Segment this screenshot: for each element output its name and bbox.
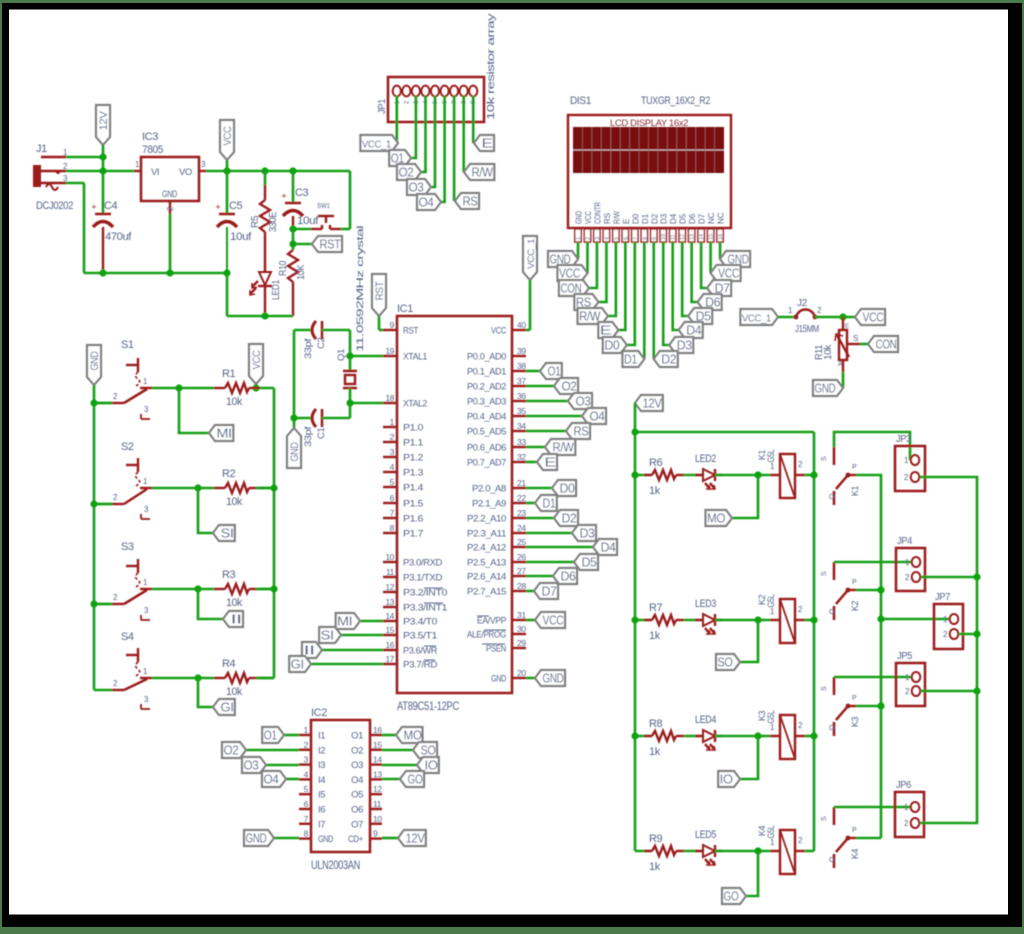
resistor R5 330E bbox=[250, 171, 279, 271]
net label GO (IC2 right) bbox=[400, 771, 424, 787]
wire JP3 pin2 to output rail bbox=[920, 477, 977, 823]
net label VCC (J2) bbox=[855, 309, 885, 325]
wire S3 pin2 bbox=[94, 603, 112, 606]
wire LCD pin 16 to GND bbox=[719, 242, 722, 259]
svg-text:I6: I6 bbox=[318, 805, 325, 816]
svg-text:D4: D4 bbox=[669, 213, 678, 224]
svg-text:D6: D6 bbox=[561, 570, 576, 584]
net label GND (R11) bbox=[813, 380, 843, 396]
svg-text:D2: D2 bbox=[650, 213, 659, 224]
wire IC1 to VCC bbox=[526, 619, 535, 622]
net label VCC (IC1 right) bbox=[535, 612, 565, 628]
net label GO (relay) bbox=[722, 888, 746, 904]
svg-text:RS: RS bbox=[463, 195, 478, 209]
driver IC2 ULN2003AN bbox=[311, 707, 370, 872]
net label O3 (JP1) bbox=[407, 179, 431, 195]
connector JP4 bbox=[896, 536, 925, 591]
svg-text:D2: D2 bbox=[661, 353, 676, 367]
wire IC1 to O3 bbox=[526, 400, 568, 403]
svg-text:O1: O1 bbox=[548, 365, 561, 379]
supply flag 12V bbox=[96, 105, 110, 157]
relay contact K1 bbox=[821, 447, 860, 505]
net label VCC (LCD right) bbox=[711, 265, 741, 281]
wire SW1 to VCC net bbox=[341, 171, 350, 229]
junction S3 tap bbox=[194, 585, 201, 592]
svg-text:O5: O5 bbox=[351, 790, 363, 801]
svg-text:5: 5 bbox=[304, 784, 309, 794]
svg-text:CONTR: CONTR bbox=[593, 202, 602, 224]
svg-text:JP6: JP6 bbox=[896, 780, 912, 791]
wire K1 P to common rail bbox=[856, 475, 881, 838]
svg-text:7: 7 bbox=[304, 814, 309, 824]
svg-text:12: 12 bbox=[385, 582, 394, 592]
wire IC1 to D0 bbox=[526, 487, 552, 490]
svg-text:26: 26 bbox=[517, 552, 526, 562]
svg-text:4: 4 bbox=[390, 462, 395, 472]
switch S4 bbox=[112, 631, 152, 709]
wire LED4 to relay K3 bbox=[715, 735, 770, 738]
svg-text:MO: MO bbox=[707, 512, 726, 526]
svg-text:PSEN: PSEN bbox=[486, 644, 506, 655]
svg-text:JP7: JP7 bbox=[935, 592, 951, 603]
svg-text:LED5: LED5 bbox=[695, 829, 716, 841]
wire LCD pin 15 to VCC bbox=[709, 242, 712, 273]
svg-text:MI: MI bbox=[217, 427, 232, 441]
relay coil K2 G5L bbox=[757, 594, 805, 643]
wire IC1 to D2 bbox=[526, 517, 554, 520]
net label IO (relay) bbox=[718, 771, 740, 787]
wire IC1 to D3 bbox=[526, 532, 572, 535]
resistor R10 10K bbox=[278, 250, 307, 316]
wire LCD pin 6 to E bbox=[618, 242, 625, 330]
svg-text:P2.6_A14: P2.6_A14 bbox=[467, 572, 506, 583]
wire J2 to VCC bbox=[815, 316, 855, 319]
wire JP1 pin5 to O3 bbox=[431, 96, 435, 188]
svg-text:D2: D2 bbox=[562, 512, 577, 526]
svg-text:JP4: JP4 bbox=[897, 536, 913, 547]
svg-text:SO: SO bbox=[421, 744, 437, 758]
svg-text:R6: R6 bbox=[649, 457, 663, 469]
svg-text:GO: GO bbox=[724, 890, 740, 904]
wire LCD pin 13 to D6 bbox=[692, 242, 698, 302]
net label D1 (LCD left) bbox=[622, 351, 644, 367]
led LED4 bbox=[684, 714, 722, 750]
svg-text:31: 31 bbox=[517, 610, 526, 620]
wire R11 to GND bbox=[842, 372, 845, 388]
svg-text:K1: K1 bbox=[850, 486, 860, 497]
svg-text:+: + bbox=[91, 202, 96, 212]
svg-text:O: O bbox=[829, 494, 835, 501]
wire R11 wiper to CON bbox=[860, 343, 868, 346]
wire XTAL2 bbox=[350, 402, 383, 405]
svg-text:S: S bbox=[821, 571, 828, 576]
wire IC1 to D4 bbox=[526, 546, 593, 549]
svg-text:12V: 12V bbox=[406, 832, 426, 846]
svg-text:16: 16 bbox=[718, 234, 724, 240]
svg-text:R2: R2 bbox=[222, 468, 236, 480]
wire GND to IC2 pin8 bbox=[274, 837, 299, 840]
svg-text:10uf: 10uf bbox=[230, 231, 252, 243]
svg-text:330E: 330E bbox=[268, 211, 279, 232]
svg-text:R4: R4 bbox=[222, 658, 236, 670]
net label R/W (LCD left) bbox=[578, 308, 608, 324]
wire S3 pin1 to R3 bbox=[152, 588, 214, 591]
svg-text:S: S bbox=[821, 816, 828, 821]
junction S3 gnd bbox=[90, 600, 97, 607]
wire JP1 pin7 to RS bbox=[453, 96, 456, 202]
svg-text:P2.0_A8: P2.0_A8 bbox=[472, 484, 506, 495]
svg-text:P: P bbox=[852, 464, 857, 471]
svg-text:32: 32 bbox=[517, 452, 526, 462]
led LED2 bbox=[684, 453, 722, 489]
junction S2 tap bbox=[194, 484, 201, 491]
svg-text:16: 16 bbox=[373, 725, 382, 735]
svg-text:IO: IO bbox=[720, 773, 734, 787]
svg-text:1: 1 bbox=[304, 725, 309, 735]
svg-text:8: 8 bbox=[390, 523, 395, 533]
net label O2 (IC1 right) bbox=[554, 378, 578, 394]
svg-text:NC: NC bbox=[707, 212, 716, 224]
svg-text:I7: I7 bbox=[318, 819, 325, 830]
wire LED3 to relay K2 bbox=[715, 619, 770, 622]
net label RS (LCD left) bbox=[574, 294, 598, 310]
svg-text:VCC: VCC bbox=[584, 211, 593, 224]
svg-text:P3.4/T0: P3.4/T0 bbox=[403, 617, 437, 628]
net label RS (IC1 right) bbox=[566, 423, 590, 439]
svg-text:1: 1 bbox=[576, 237, 582, 240]
net label MO (relay) bbox=[706, 510, 733, 526]
svg-text:18: 18 bbox=[385, 393, 394, 403]
svg-text:36: 36 bbox=[517, 391, 526, 401]
net label D4 (IC1 right) bbox=[593, 539, 617, 555]
net label O4 (IC1 right) bbox=[582, 408, 606, 424]
wire IC1 to II bbox=[322, 649, 383, 652]
svg-text:I4: I4 bbox=[318, 775, 325, 786]
svg-text:22: 22 bbox=[517, 493, 526, 503]
svg-text:10k: 10k bbox=[823, 344, 834, 360]
svg-text:P: P bbox=[852, 827, 857, 834]
svg-text:11: 11 bbox=[671, 234, 677, 240]
svg-text:C3: C3 bbox=[295, 187, 309, 199]
junction K2 P bbox=[877, 586, 884, 593]
net label 12V (IC2) bbox=[398, 830, 426, 846]
wire K3 P bbox=[856, 705, 881, 708]
net label VCC_1 flag (MCU) bbox=[523, 236, 537, 330]
svg-text:VCC: VCC bbox=[251, 350, 263, 369]
svg-text:D1: D1 bbox=[641, 213, 650, 224]
wire IC2 to GO bbox=[382, 778, 400, 781]
svg-text:1k: 1k bbox=[649, 746, 661, 758]
svg-text:XTAL2: XTAL2 bbox=[403, 399, 427, 410]
wire IC1 to GI bbox=[311, 663, 383, 666]
svg-text:O4: O4 bbox=[419, 196, 434, 210]
wire LCD pin 11 to D4 bbox=[673, 242, 679, 330]
svg-text:D3: D3 bbox=[660, 213, 669, 224]
net label II (IC1 left) bbox=[302, 642, 322, 658]
svg-text:27: 27 bbox=[517, 566, 526, 576]
net label GI (switch) bbox=[213, 699, 235, 715]
svg-text:J2: J2 bbox=[797, 298, 808, 309]
wire LCD pin 7 to D0 bbox=[627, 242, 635, 345]
svg-text:O6: O6 bbox=[351, 805, 363, 816]
svg-text:D0: D0 bbox=[631, 213, 640, 224]
svg-text:VCC: VCC bbox=[222, 126, 234, 145]
svg-text:K3: K3 bbox=[850, 717, 860, 728]
wire RST node bbox=[292, 229, 295, 250]
svg-text:DIS1: DIS1 bbox=[570, 95, 591, 107]
svg-text:GND: GND bbox=[289, 442, 301, 461]
svg-text:O7: O7 bbox=[351, 819, 363, 830]
svg-text:1k: 1k bbox=[649, 485, 661, 497]
svg-text:5: 5 bbox=[614, 237, 620, 240]
svg-text:P1.4: P1.4 bbox=[403, 483, 423, 494]
svg-text:+: + bbox=[215, 202, 220, 212]
svg-text:12: 12 bbox=[680, 234, 686, 240]
wire S3 tap to II bbox=[198, 589, 223, 619]
svg-text:C4: C4 bbox=[104, 200, 118, 212]
wire LCD pin 2 to VCC bbox=[586, 242, 589, 273]
wire VO output node bbox=[206, 170, 350, 173]
svg-text:O: O bbox=[829, 725, 835, 732]
svg-text:RST: RST bbox=[320, 238, 342, 252]
net label D4 (LCD right) bbox=[679, 322, 703, 338]
svg-text:33pf: 33pf bbox=[303, 338, 314, 359]
net label SO (IC2 right) bbox=[413, 742, 437, 758]
svg-text:21: 21 bbox=[517, 478, 526, 488]
net label O4 (JP1) bbox=[417, 194, 441, 210]
junction rail R3 bbox=[270, 585, 277, 592]
wire J1 pin1 to 12V node bbox=[66, 156, 103, 159]
svg-text:3: 3 bbox=[304, 755, 309, 765]
junction right rail K2 bbox=[810, 616, 817, 623]
net label D6 (IC1 right) bbox=[553, 568, 577, 584]
IC2 pins bbox=[299, 725, 382, 845]
wire to RST label bbox=[293, 243, 312, 246]
capacitor C3 10uf bbox=[281, 171, 319, 229]
svg-text:D1: D1 bbox=[543, 497, 556, 511]
ground flag (crystal) bbox=[287, 428, 301, 468]
svg-text:10K: 10K bbox=[296, 264, 307, 280]
svg-text:33pf: 33pf bbox=[303, 426, 314, 447]
svg-text:1k: 1k bbox=[649, 861, 661, 873]
wire S2 pin2 bbox=[94, 503, 112, 506]
svg-text:D6: D6 bbox=[688, 213, 697, 224]
svg-text:O: O bbox=[829, 857, 835, 864]
svg-text:P3.6/WR: P3.6/WR bbox=[403, 646, 438, 657]
svg-text:P0.5_AD5: P0.5_AD5 bbox=[467, 427, 506, 438]
relay coil K1 G5L bbox=[757, 449, 805, 498]
svg-text:K4: K4 bbox=[850, 849, 860, 860]
svg-text:7805: 7805 bbox=[142, 144, 163, 156]
svg-text:14: 14 bbox=[373, 755, 382, 765]
relay coil K3 G5L bbox=[757, 710, 805, 759]
svg-text:D7: D7 bbox=[542, 585, 557, 599]
wire relay K3 to right rail bbox=[805, 735, 814, 738]
svg-text:GND: GND bbox=[246, 832, 267, 846]
svg-text:D0: D0 bbox=[604, 339, 619, 353]
svg-text:VCC: VCC bbox=[543, 614, 564, 628]
wire R2 to rail bbox=[256, 487, 274, 490]
svg-text:O1: O1 bbox=[264, 729, 277, 743]
junction left rail row R7 bbox=[631, 616, 638, 623]
wire J1 pin3 down to ground rail bbox=[66, 183, 84, 273]
connector JP6 bbox=[895, 780, 924, 837]
svg-text:O3: O3 bbox=[409, 181, 424, 195]
resistor R8 1k bbox=[635, 718, 684, 758]
wire tap to SO bbox=[740, 620, 758, 662]
ground flag (switches) bbox=[87, 345, 101, 403]
junction VCC-R1 bbox=[252, 384, 259, 391]
svg-text:S: S bbox=[853, 334, 858, 343]
svg-text:D3: D3 bbox=[580, 527, 595, 541]
junction left rail row R6 bbox=[631, 471, 638, 478]
svg-text:D5: D5 bbox=[582, 556, 597, 570]
wire S2 tap to SI bbox=[198, 488, 213, 533]
net label D0 (IC1 right) bbox=[552, 480, 576, 496]
svg-text:LED4: LED4 bbox=[695, 714, 716, 726]
wire LCD pin 3 to CON bbox=[589, 242, 597, 288]
svg-text:10: 10 bbox=[661, 234, 667, 240]
svg-text:9: 9 bbox=[390, 320, 395, 330]
svg-text:9: 9 bbox=[373, 829, 378, 839]
IC1 right pins bbox=[467, 320, 526, 685]
svg-text:19: 19 bbox=[385, 346, 394, 356]
resistor array JP1 bbox=[377, 77, 484, 122]
net label D5 (LCD right) bbox=[688, 308, 712, 324]
wire IC1 to O2 bbox=[526, 385, 554, 388]
wire LED2 to relay K1 bbox=[715, 474, 770, 477]
svg-text:P0.6_AD6: P0.6_AD6 bbox=[467, 443, 506, 454]
svg-text:R/W: R/W bbox=[612, 211, 621, 224]
wire IC1 to O4 bbox=[526, 415, 582, 418]
svg-text:P3.3/INT1: P3.3/INT1 bbox=[403, 603, 447, 614]
net label MI (IC1 left) bbox=[336, 613, 360, 629]
junction GO tap bbox=[754, 847, 761, 854]
svg-text:6: 6 bbox=[304, 799, 309, 809]
wire IC1 to D6 bbox=[526, 575, 553, 578]
wire LCD pin 9 to D2 bbox=[652, 242, 655, 359]
svg-text:DCJ0202: DCJ0202 bbox=[36, 200, 73, 212]
resistor R7 1k bbox=[635, 602, 684, 642]
net label O2 (JP1) bbox=[397, 164, 421, 180]
wire LCD pin 12 to D5 bbox=[682, 242, 688, 316]
svg-text:G5L: G5L bbox=[766, 594, 776, 607]
wire S1 pin1 to R1 bbox=[152, 387, 214, 390]
wire tap to GO bbox=[746, 851, 758, 896]
svg-text:I2: I2 bbox=[318, 745, 325, 756]
svg-text:1k: 1k bbox=[649, 630, 661, 642]
net label D5 (IC1 right) bbox=[574, 554, 598, 570]
net label O3 (IC1 right) bbox=[568, 393, 592, 409]
junction 12V node bbox=[99, 153, 106, 160]
wire JP1 pin6 to O4 bbox=[441, 96, 445, 203]
svg-text:P3.5/T1: P3.5/T1 bbox=[403, 631, 437, 642]
capacitor C4 470uf bbox=[91, 171, 132, 273]
relay contact K3 bbox=[821, 677, 860, 736]
wire C3 to SW1 bbox=[293, 228, 311, 231]
svg-text:G5L: G5L bbox=[766, 825, 776, 838]
svg-text:JP3: JP3 bbox=[896, 434, 912, 445]
svg-text:P1.5: P1.5 bbox=[403, 499, 423, 510]
connector JP7 bbox=[934, 592, 963, 649]
capacitor C2 33pf bbox=[294, 321, 350, 359]
svg-text:15: 15 bbox=[385, 625, 394, 635]
svg-text:17: 17 bbox=[385, 654, 394, 664]
svg-text:MI: MI bbox=[337, 615, 352, 629]
svg-text:37: 37 bbox=[517, 376, 526, 386]
svg-text:29: 29 bbox=[517, 638, 526, 648]
svg-text:7: 7 bbox=[390, 508, 395, 518]
resistor R9 1k bbox=[635, 833, 684, 873]
svg-text:R1: R1 bbox=[222, 368, 236, 380]
net label VCC_1 (J2) bbox=[740, 309, 778, 325]
svg-text:R3: R3 bbox=[222, 569, 236, 581]
junction RST node bbox=[289, 240, 296, 247]
svg-text:25: 25 bbox=[517, 537, 526, 547]
crystal Q1 11.0592MHz bbox=[336, 226, 366, 403]
net label O1 (IC1 right) bbox=[540, 363, 562, 379]
relay coil K4 G5L bbox=[757, 825, 805, 874]
junction C1 ground bbox=[290, 414, 297, 421]
svg-text:4: 4 bbox=[304, 769, 309, 779]
net label GND (LCD right) bbox=[720, 251, 750, 267]
wire LCD pin 14 to D7 bbox=[701, 242, 707, 288]
junction C3-SW1 node bbox=[289, 225, 296, 232]
net label D3 (LCD right) bbox=[669, 337, 693, 353]
wire S2 pin1 to R2 bbox=[152, 487, 214, 490]
svg-text:ALE/PROG: ALE/PROG bbox=[467, 630, 506, 641]
net label CON (R11) bbox=[868, 336, 898, 352]
svg-text:G5L: G5L bbox=[766, 710, 776, 723]
svg-text:VO: VO bbox=[179, 167, 192, 178]
net label R/W (JP1) bbox=[464, 164, 494, 180]
led LED1 bbox=[250, 272, 282, 316]
junction S4 tap bbox=[194, 674, 201, 681]
svg-text:VCC_1: VCC_1 bbox=[526, 239, 536, 269]
svg-text:GND: GND bbox=[815, 382, 836, 396]
svg-text:R5: R5 bbox=[250, 215, 261, 228]
wire relay K2 to right rail bbox=[805, 619, 814, 622]
wire IC2 to IO bbox=[382, 764, 417, 767]
svg-text:R/W: R/W bbox=[472, 166, 494, 180]
display DIS1 TUXGR_16X2_R2 bbox=[568, 95, 731, 228]
svg-text:13: 13 bbox=[690, 234, 696, 240]
wire relay K4 to right rail bbox=[805, 850, 814, 853]
relay contact K4 bbox=[821, 807, 860, 868]
net label D7 (LCD right) bbox=[707, 280, 731, 296]
svg-text:VCC: VCC bbox=[559, 267, 580, 281]
junction C3 top bbox=[289, 167, 296, 174]
wire tap to IO bbox=[740, 736, 758, 779]
svg-text:GND: GND bbox=[491, 674, 506, 685]
svg-text:D0: D0 bbox=[560, 482, 575, 496]
resistor R1 10k bbox=[214, 368, 260, 408]
net label R/W (IC1 right) bbox=[545, 439, 575, 455]
wire K3 S to JP5 bbox=[834, 676, 911, 679]
led LED5 bbox=[684, 829, 722, 865]
svg-text:D3: D3 bbox=[677, 339, 692, 353]
svg-text:S: S bbox=[821, 686, 828, 691]
wire O2 to IC2 bbox=[246, 749, 299, 752]
svg-text:20: 20 bbox=[517, 668, 526, 678]
svg-text:O3: O3 bbox=[351, 760, 363, 771]
svg-text:P2.5_A13: P2.5_A13 bbox=[467, 558, 506, 569]
svg-text:LED2: LED2 bbox=[695, 453, 716, 465]
svg-text:E: E bbox=[845, 324, 849, 330]
connector J1 DCJ0202 bbox=[33, 143, 73, 212]
wire R3 to rail bbox=[256, 588, 274, 591]
wire IC2 CD+ to 12V bbox=[382, 837, 398, 840]
